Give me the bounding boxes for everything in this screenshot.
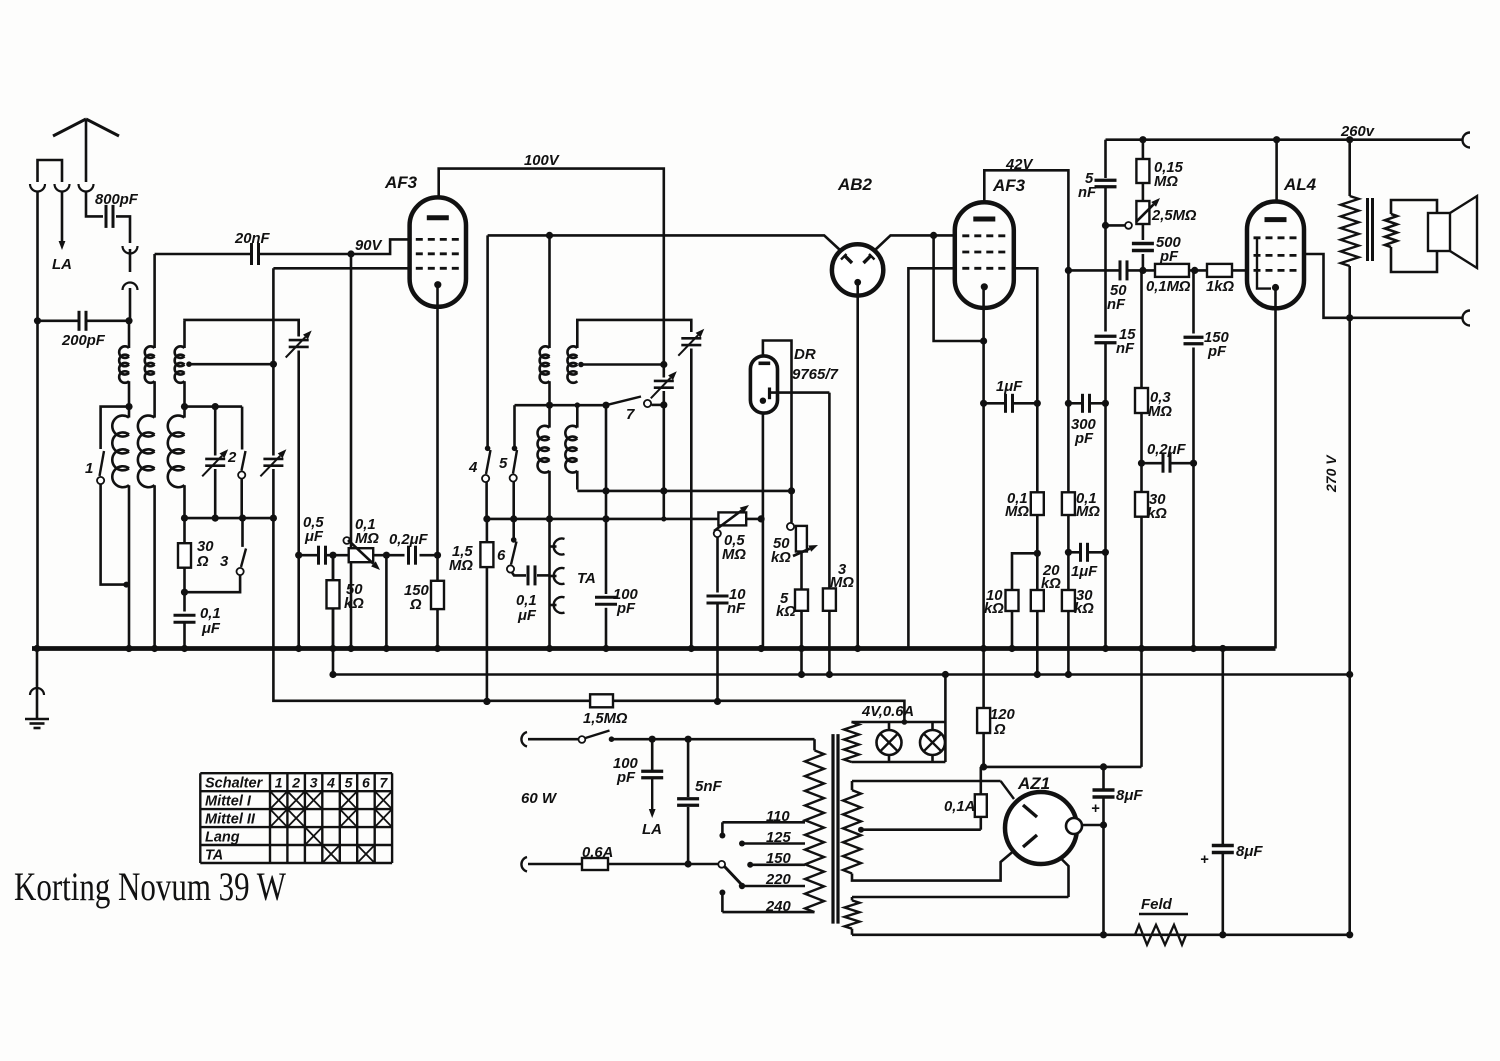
svg-text:AZ1: AZ1: [1017, 774, 1050, 793]
svg-text:110: 110: [766, 809, 790, 825]
svg-text:7: 7: [380, 775, 389, 791]
svg-text:0,1A: 0,1A: [944, 799, 975, 815]
svg-text:DR: DR: [794, 346, 816, 363]
svg-text:3: 3: [220, 553, 229, 570]
svg-text:6: 6: [497, 547, 506, 564]
svg-text:MΩ: MΩ: [355, 531, 379, 547]
svg-text:μF: μF: [201, 621, 221, 637]
svg-text:nF: nF: [727, 601, 746, 617]
svg-text:1μF: 1μF: [1071, 564, 1098, 580]
svg-text:+: +: [1200, 852, 1209, 868]
svg-text:8μF: 8μF: [1116, 787, 1143, 804]
svg-text:kΩ: kΩ: [1147, 506, 1167, 522]
svg-text:TA: TA: [205, 848, 223, 864]
svg-text:Lang: Lang: [205, 830, 240, 846]
svg-text:kΩ: kΩ: [344, 596, 364, 612]
svg-text:0,2μF: 0,2μF: [1147, 442, 1186, 458]
svg-text:MΩ: MΩ: [1076, 504, 1100, 520]
svg-text:4: 4: [468, 459, 478, 476]
svg-text:2: 2: [291, 775, 300, 791]
svg-text:Korting Novum 39 W: Korting Novum 39 W: [14, 864, 286, 909]
svg-text:μF: μF: [517, 608, 537, 624]
svg-text:pF: pF: [616, 770, 636, 786]
svg-text:30: 30: [197, 539, 214, 555]
svg-text:MΩ: MΩ: [1154, 174, 1178, 190]
svg-text:8μF: 8μF: [1236, 843, 1263, 860]
svg-text:pF: pF: [616, 601, 636, 617]
svg-text:220: 220: [765, 872, 791, 888]
svg-text:270 V: 270 V: [1323, 454, 1339, 493]
svg-text:6: 6: [362, 775, 370, 791]
svg-text:125: 125: [766, 830, 791, 846]
svg-text:120: 120: [990, 707, 1015, 723]
svg-text:1: 1: [275, 775, 283, 791]
svg-text:kΩ: kΩ: [771, 550, 791, 566]
svg-text:100V: 100V: [524, 153, 560, 169]
svg-text:200pF: 200pF: [61, 333, 106, 349]
svg-text:AF3: AF3: [384, 173, 418, 192]
svg-text:MΩ: MΩ: [830, 575, 854, 591]
svg-text:2,5MΩ: 2,5MΩ: [1151, 208, 1197, 224]
svg-text:pF: pF: [1074, 431, 1094, 447]
svg-text:Ω: Ω: [196, 554, 209, 570]
svg-text:90V: 90V: [355, 238, 382, 254]
svg-text:TA: TA: [577, 570, 596, 587]
svg-text:4: 4: [326, 775, 335, 791]
svg-text:1,5MΩ: 1,5MΩ: [583, 711, 628, 727]
svg-text:MΩ: MΩ: [1148, 404, 1172, 420]
svg-text:9765/7: 9765/7: [792, 366, 839, 383]
svg-text:+: +: [1091, 801, 1100, 817]
svg-text:LA: LA: [642, 821, 662, 838]
svg-text:kΩ: kΩ: [1041, 576, 1061, 592]
svg-text:5nF: 5nF: [695, 778, 723, 795]
svg-text:kΩ: kΩ: [1074, 601, 1094, 617]
svg-text:150: 150: [766, 851, 791, 867]
svg-text:kΩ: kΩ: [984, 601, 1004, 617]
svg-text:800pF: 800pF: [95, 192, 139, 208]
svg-text:1μF: 1μF: [996, 379, 1023, 395]
svg-text:0,2μF: 0,2μF: [389, 532, 428, 548]
svg-text:0,6A: 0,6A: [582, 845, 613, 861]
svg-text:pF: pF: [1159, 249, 1179, 265]
svg-text:7: 7: [626, 406, 635, 423]
svg-text:Feld: Feld: [1141, 896, 1173, 913]
svg-text:MΩ: MΩ: [1005, 504, 1029, 520]
svg-text:Mittel II: Mittel II: [205, 812, 256, 828]
svg-text:42V: 42V: [1005, 157, 1033, 173]
svg-text:LA: LA: [52, 256, 72, 273]
svg-text:Schalter: Schalter: [205, 776, 264, 792]
svg-text:0,1: 0,1: [516, 593, 537, 609]
svg-text:Ω: Ω: [409, 597, 422, 613]
svg-text:pF: pF: [1207, 344, 1227, 360]
svg-text:Ω: Ω: [993, 722, 1006, 738]
svg-text:60 W: 60 W: [521, 790, 558, 807]
svg-text:240: 240: [765, 899, 791, 915]
svg-text:5: 5: [345, 775, 353, 791]
svg-text:μF: μF: [304, 529, 324, 545]
svg-text:5: 5: [499, 455, 508, 472]
svg-text:nF: nF: [1078, 185, 1097, 201]
svg-text:1: 1: [85, 460, 93, 477]
svg-text:nF: nF: [1116, 341, 1135, 357]
svg-text:AL4: AL4: [1283, 175, 1317, 194]
svg-text:0,1MΩ: 0,1MΩ: [1146, 279, 1191, 295]
svg-text:nF: nF: [1107, 297, 1126, 313]
svg-text:2: 2: [227, 449, 237, 466]
svg-text:3: 3: [310, 775, 318, 791]
svg-text:kΩ: kΩ: [776, 604, 796, 620]
svg-text:AB2: AB2: [837, 175, 873, 194]
svg-text:1kΩ: 1kΩ: [1206, 279, 1234, 295]
svg-text:4V,0.6A: 4V,0.6A: [861, 704, 914, 720]
svg-text:260v: 260v: [1340, 124, 1375, 140]
svg-text:MΩ: MΩ: [722, 547, 746, 563]
svg-text:Mittel I: Mittel I: [205, 794, 252, 810]
svg-text:0,1: 0,1: [200, 606, 221, 622]
svg-text:AF3: AF3: [992, 176, 1026, 195]
svg-text:MΩ: MΩ: [449, 558, 473, 574]
